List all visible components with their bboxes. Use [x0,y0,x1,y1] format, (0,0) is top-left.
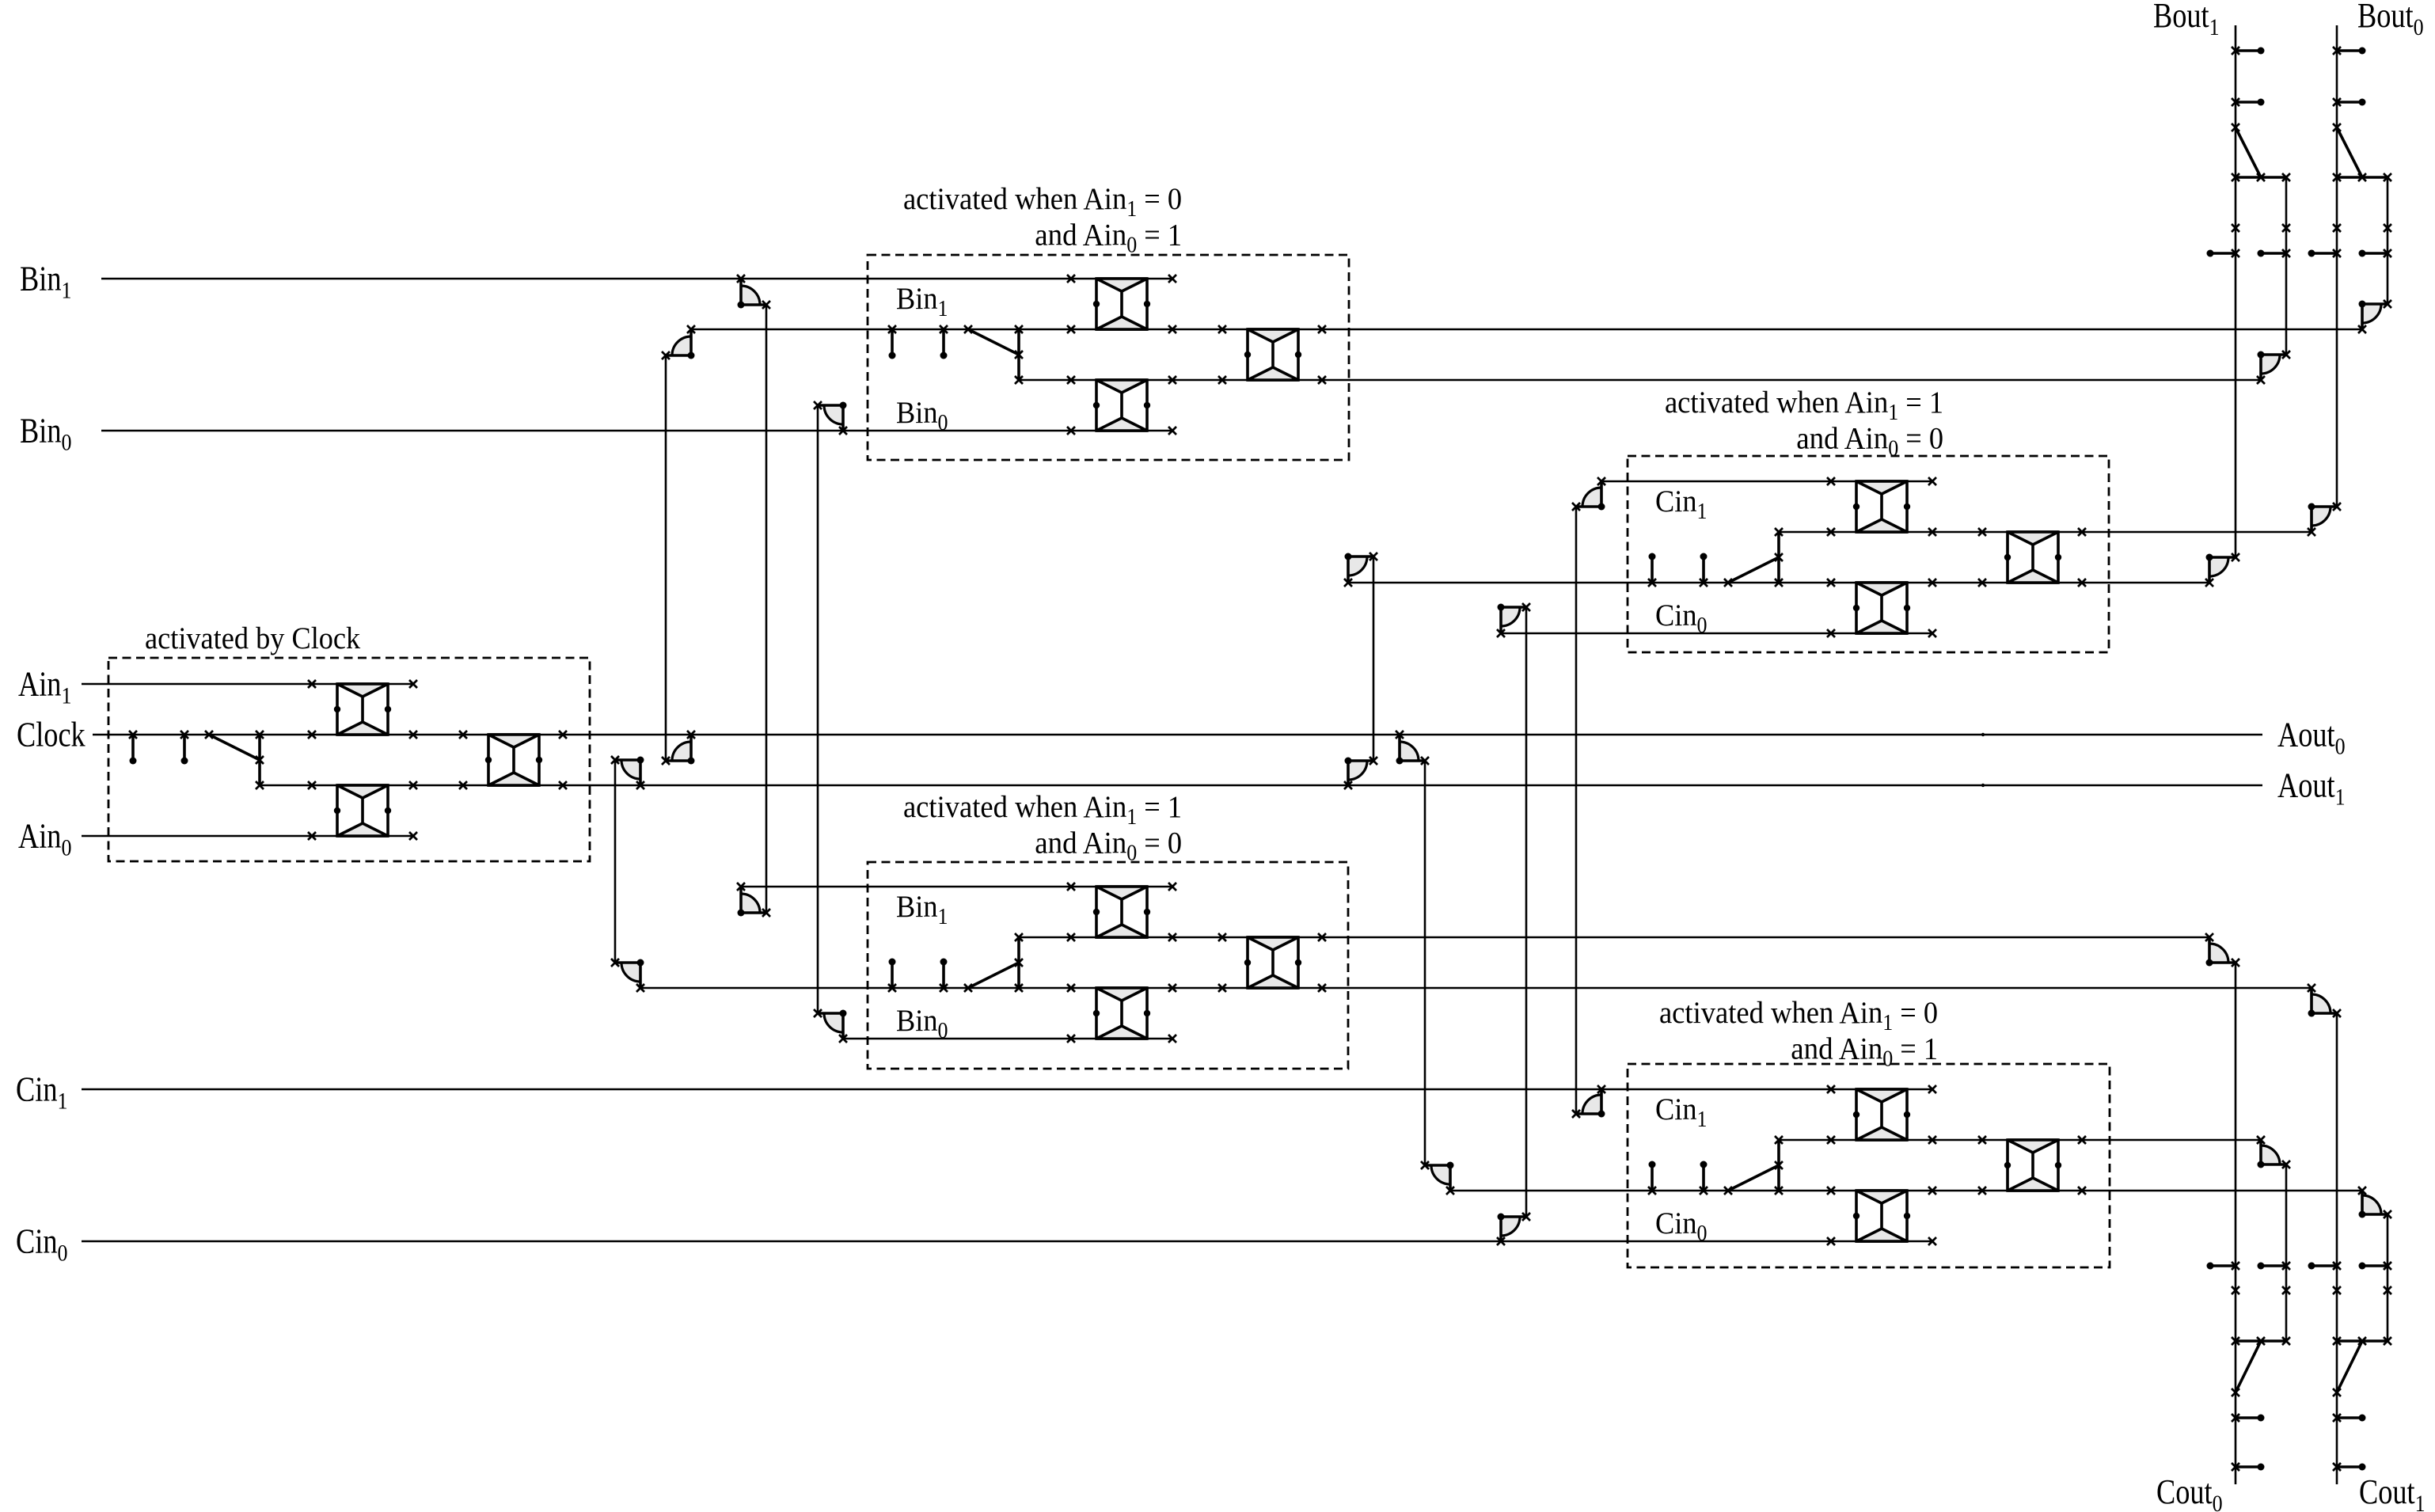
G4 (lower-right) gadget output lock [2004,1140,2061,1191]
svg-text:1: 1 [1888,401,1898,425]
svg-text:= 1: = 1 [1898,386,1943,420]
wire G3 internal Bin0 (y=1312) [843,1038,1172,1040]
svg-text:Aout: Aout [2277,766,2335,805]
svg-text:Cin: Cin [1655,1092,1697,1126]
caption G2 line2 [1796,422,1943,462]
G1 (top) gadget detent pin 2 [940,325,948,359]
svg-text:Bin: Bin [896,396,938,430]
svg-text:Bin: Bin [896,890,938,924]
G1 (top) gadget lower lock [1093,380,1150,431]
G2 (upper-right) gadget detent pin 2 [1700,553,1708,587]
G0 (clock) gadget detent pin 2 [180,731,188,765]
svg-text:0: 0 [2335,734,2346,760]
Cout1 output balance rod pin left [2308,1262,2342,1270]
G1 (top) gadget upper lock [1093,279,1150,329]
G2 (upper-right) gadget wire anchors [1827,477,2086,637]
wire Bin0 (main input, y=544) [101,430,1172,432]
svg-text:activated by Clock: activated by Clock [145,621,361,655]
G2 (upper-right) gadget lower lock [1853,583,1910,633]
svg-text:Ain: Ain [18,817,61,856]
corner joint: V1 to Aout0 [662,731,695,765]
corner joint: Aout0 tap to V7 [1396,731,1429,765]
svg-text:Bout: Bout [2153,0,2209,35]
Cout0 balance right rod, x=2888 [2285,1164,2288,1341]
label Cout0 [2156,1472,2223,1512]
svg-text:1: 1 [937,905,948,929]
svg-text:0: 0 [61,430,71,456]
G3 (middle) gadget wire anchors [1067,883,1326,1043]
svg-text:and Ain: and Ain [1791,1032,1882,1066]
svg-text:= 0: = 0 [1898,422,1943,456]
G1 (top) gadget detent pin 1 [888,325,896,359]
svg-text:and Ain: and Ain [1035,826,1126,860]
wire G2 input / lower rod (y=736) [1348,582,2209,584]
Cout0 output balance rod pin left [2207,1262,2240,1270]
svg-text:= 0: = 0 [1137,182,1182,216]
label Aout0 [2277,716,2346,760]
corner joint: V6 to G2 input wire [1344,553,1377,587]
Bout1 output balance rod pin right [2258,249,2291,257]
svg-text:Bin: Bin [896,282,938,316]
svg-text:Bout: Bout [2357,0,2414,35]
wire G2 internal Cin1 (y=608) [1601,481,1931,483]
G2 (upper-right) gadget detent pin 1 [1648,553,1656,587]
corner joint: V8 to G3 input wire [611,959,644,992]
svg-text:Aout: Aout [2277,716,2335,754]
dashed box: activated when Ain1=1, Ain0=0 (middle) [868,862,1348,1069]
wire Aout1 (clock-balance lower rod, y=992) [260,784,2262,787]
svg-text:Cin: Cin [1655,598,1697,633]
svg-text:1: 1 [61,278,71,304]
svg-text:0: 0 [1696,614,1707,638]
caption G4 line2 [1791,1032,1938,1072]
svg-text:0: 0 [2213,1491,2223,1512]
Bout1 output balance input pin 2 [2232,98,2265,106]
corner joint: G1 input wire end to V1 [662,325,695,359]
vertical link V6 (Aout1 to G2 input), x=1735 [1373,557,1375,761]
svg-text:1: 1 [2335,784,2346,811]
vertical link V3 (Bin0 to G3), x=1033 [817,405,819,1013]
Cout0 output balance rod anchors [2232,1286,2290,1294]
G4 (lower-right) gadget balance rod left edge [1775,1136,1783,1195]
G4 (lower-right) gadget upper lock [1853,1089,1910,1140]
caption: activated by Clock [145,621,361,655]
vertical link V2 (Bin1 to G3), x=968 [765,305,768,913]
corner joint: G4 upper rod to Cout0 balance [2257,1136,2290,1168]
svg-text:Cout: Cout [2156,1472,2213,1511]
corner joint: Bin0 tap to V3 [814,401,847,435]
label Clock [17,716,85,754]
svg-text:1: 1 [61,683,71,709]
corner joint: Bin1 tap to V2 [737,275,770,309]
inner label G2 Cin1 [1655,484,1707,524]
wire G1 lower rod (y=480) [1019,379,2261,382]
svg-text:activated when Ain: activated when Ain [1665,386,1888,420]
svg-text:0: 0 [57,1240,67,1267]
corner joint: G2 lower rod to x=2824 line [2205,553,2239,587]
svg-text:0: 0 [2414,14,2424,40]
Bout1 output balance actuating diagonal link [2232,123,2261,177]
Bout1 output balance input pin 1 [2232,47,2265,55]
G4 (lower-right) gadget detent pin 2 [1700,1161,1708,1195]
dashed box: activated when Ain1=0, Ain0=1 (bottom) [1628,1064,2110,1267]
svg-text:1: 1 [1696,500,1707,524]
Cout0 output balance input pin 2 [2232,1463,2265,1471]
wire G3 upper rod (y=1184) [1019,936,2209,939]
G1 (top) gadget balance rod left edge [1015,325,1023,384]
svg-text:0: 0 [1126,234,1137,258]
G2 (upper-right) gadget upper lock [1853,481,1910,532]
G2 (upper-right) gadget balance rod left edge [1775,528,1783,587]
G3 (middle) gadget actuating diagonal link [964,963,1019,992]
label Bin0 [20,412,71,456]
corner joint: Cin0 tap to V5 [1497,1213,1530,1245]
vertical main Cout0 line lower, x=2824 [2235,963,2237,1484]
label Bout0 [2357,0,2424,40]
svg-text:and Ain: and Ain [1796,422,1888,456]
G3 (middle) gadget output lock [1244,937,1301,988]
G0 (clock) gadget balance rod left edge [256,731,264,789]
wire Ain0 (main input, y=1056) [82,835,412,838]
svg-text:Cin: Cin [1655,1206,1697,1240]
svg-text:= 0: = 0 [1893,996,1938,1030]
G3 (middle) gadget upper lock [1093,887,1150,937]
label Bout1 [2153,0,2220,40]
inner label G1 Bin0 [896,396,948,435]
Cout0 output balance input pin 1 [2232,1414,2265,1422]
label Cout1 [2359,1472,2426,1512]
wire G2 upper rod (y=672) [1779,531,2312,534]
svg-text:1: 1 [1696,1107,1707,1132]
svg-text:0: 0 [937,1019,948,1043]
vertical main Bout0 line upper, x=2952 [2336,25,2338,507]
svg-text:1: 1 [937,297,948,321]
corner joint: G1 lower rod to Bout1 balance [2257,351,2290,384]
G0 (clock) gadget wire anchors [308,680,567,840]
G3 (middle) gadget detent pin 2 [940,959,948,993]
wire G4 input / lower rod (y=1504) [1451,1190,2362,1192]
svg-text:and Ain: and Ain [1035,218,1126,253]
corner joint: V3 to G3 Bin0 wire [814,1009,847,1043]
caption G4 line1 [1659,996,1938,1035]
Cout1 output balance rod anchors [2333,1286,2391,1294]
G0 (clock) gadget actuating diagonal link [205,731,260,760]
label Ain0 [18,817,71,861]
svg-text:1: 1 [2415,1491,2426,1512]
dashed box: activated by Clock [108,658,590,861]
svg-text:0: 0 [1888,437,1898,462]
wire Clock / Aout0 (y=928) [93,734,2262,736]
wire G3 internal Bin1 (y=1120) [741,886,1172,888]
caption G1 line1 [903,182,1182,222]
G0 (clock) gadget output lock [485,735,542,785]
dashed box: activated when Ain1=0, Ain0=1 (top) [868,255,1349,460]
wire Cin0 (main input, y=1568) [82,1240,1931,1243]
Bout0 output balance rod pin right [2359,249,2392,257]
Bout0 output balance rod pin left [2308,249,2342,257]
corner joint: G4 lower rod to Cout1 balance [2358,1187,2391,1218]
corner joint: G3 upper rod to x=2824 line [2205,933,2239,967]
corner joint: G2 upper rod to x=2952 line [2308,503,2341,536]
G4 (lower-right) gadget actuating diagonal link [1724,1165,1779,1195]
Cout1 output balance rod pin right [2359,1262,2392,1270]
Bout1 balance right rod, x=2888 [2285,177,2288,355]
caption G1 line2 [1035,218,1182,258]
Bout0 output balance input pin 1 [2333,47,2366,55]
wire G4 upper rod (y=1440) [1779,1139,2261,1142]
Cout0 output balance rod pin right [2258,1262,2291,1270]
svg-text:Cin: Cin [16,1070,58,1109]
label Ain1 [18,665,71,709]
svg-text:activated when Ain: activated when Ain [1659,996,1882,1030]
G2 (upper-right) gadget output lock [2004,532,2061,583]
corner joint: Aout1 tap to V8 [611,756,644,789]
svg-text:Bin: Bin [20,260,62,298]
Bout0 output balance balance rod top edge [2333,173,2391,181]
label Aout1 [2277,766,2346,811]
G4 (lower-right) gadget wire anchors [1827,1085,2086,1245]
G1 (top) gadget actuating diagonal link [964,325,1019,355]
svg-text:Cin: Cin [16,1222,58,1261]
label Bin1 [20,260,71,304]
wire Ain1 (main input, y=864) [82,683,412,686]
dashed box: activated when Ain1=1, Ain0=0 (right) [1628,456,2109,652]
G3 (middle) gadget balance rod left edge [1015,933,1023,992]
Cout1 balance right rod, x=3016 [2387,1214,2389,1341]
svg-text:activated when Ain: activated when Ain [903,182,1126,216]
Cout1 output balance input pin 2 [2333,1463,2366,1471]
corner joint: V4 to G2 Cin1 wire [1572,477,1605,511]
svg-text:1: 1 [57,1088,67,1115]
Cout1 output balance actuating diagonal link [2333,1341,2362,1396]
G4 (lower-right) gadget detent pin 1 [1648,1161,1656,1195]
svg-text:Cin: Cin [1655,484,1697,519]
svg-text:0: 0 [1126,841,1137,866]
wire Cin1 (main input, y=1376) [82,1088,1931,1091]
svg-text:= 1: = 1 [1137,790,1182,824]
wire G3 input / lower rod (y=1248) [640,987,2312,990]
vertical link V7 (Aout0 to G4 input), x=1800 [1424,761,1426,1165]
svg-text:Cout: Cout [2359,1472,2415,1511]
corner joint: Cin1 tap to V4 [1572,1085,1605,1118]
inner label G3 Bin1 [896,890,948,929]
G3 (middle) gadget lower lock [1093,988,1150,1039]
corner joint: V2 to G3 Bin1 wire [737,883,770,917]
corner joint: V7 to G4 input wire [1421,1161,1454,1195]
Bout1 output balance rod pin left [2207,249,2240,257]
wire G1 input / upper rod (y=416) [691,329,2362,331]
caption G3 line1 [903,790,1182,830]
svg-text:1: 1 [1126,805,1137,830]
label Cin0 [16,1222,67,1267]
Bout1 output balance balance rod top edge [2232,173,2290,181]
vertical link V1 (G1 input to Aout0), x=841 [665,355,667,761]
vertical main Cout1 line lower, x=2952 [2336,1013,2338,1484]
caption G3 line2 [1035,826,1182,866]
Cout1 output balance input pin 1 [2333,1414,2366,1422]
wire G2 internal Cin0 (y=800) [1501,633,1931,635]
G3 (middle) gadget detent pin 1 [888,959,896,993]
inner label G2 Cin0 [1655,598,1707,638]
G0 (clock) gadget lower lock [334,785,391,836]
svg-text:0: 0 [937,411,948,435]
G1 (top) gadget wire anchors [1067,275,1326,435]
svg-text:= 0: = 0 [1137,826,1182,860]
Bout0 output balance actuating diagonal link [2333,123,2362,177]
G0 (clock) gadget upper lock [334,684,391,735]
G4 (lower-right) gadget lower lock [1853,1191,1910,1241]
svg-text:Ain: Ain [18,665,61,704]
Bout0 output balance rod anchors [2333,224,2391,232]
caption G2 line1 [1665,386,1943,425]
vertical main Bout1 line upper, x=2824 [2235,25,2237,557]
wire Bin1 (main input, y=352) [101,278,1172,280]
Bout0 output balance input pin 2 [2333,98,2366,106]
inner label G4 Cin1 [1655,1092,1707,1132]
Bout0 balance right rod, x=3016 [2387,177,2389,304]
svg-text:Bin: Bin [20,412,62,450]
G2 (upper-right) gadget actuating diagonal link [1724,557,1779,587]
svg-text:1: 1 [2209,14,2220,40]
vertical link V8 (Aout1 to G3 input), x=777 [614,760,617,963]
svg-text:Clock: Clock [17,716,85,754]
Cout0 output balance balance rod bottom edge [2232,1337,2290,1345]
inner label G3 Bin0 [896,1004,948,1043]
corner joint: G3 lower rod to x=2952 line [2308,984,2341,1017]
inner label G1 Bin1 [896,282,948,321]
vertical link V4 (Cin1 to G2), x=1991 [1575,507,1578,1114]
corner joint: Aout1 tap to V6 [1344,757,1377,789]
label Cin1 [16,1070,67,1115]
anchor joints on Aout lines [1981,733,1985,787]
Cout1 output balance balance rod bottom edge [2333,1337,2391,1345]
Cout0 output balance actuating diagonal link [2232,1341,2261,1396]
corner joint: G1 upper rod to Bout0 balance [2358,300,2391,333]
svg-text:0: 0 [1882,1047,1893,1072]
svg-text:1: 1 [1126,197,1137,222]
svg-text:activated when Ain: activated when Ain [903,790,1126,824]
svg-text:= 1: = 1 [1137,218,1182,253]
Bout1 output balance rod anchors [2232,224,2290,232]
G0 (clock) gadget detent pin 1 [129,731,137,765]
inner label G4 Cin0 [1655,1206,1707,1246]
svg-text:1: 1 [1882,1011,1893,1035]
corner joint: V5 to G2 Cin0 wire [1497,603,1530,637]
svg-text:0: 0 [1696,1221,1707,1246]
svg-text:= 1: = 1 [1893,1032,1938,1066]
svg-text:0: 0 [61,835,71,861]
svg-text:Bin: Bin [896,1004,938,1038]
G1 (top) gadget output lock [1244,329,1301,380]
vertical link V5 (Cin0 to G2), x=1928 [1525,607,1528,1217]
